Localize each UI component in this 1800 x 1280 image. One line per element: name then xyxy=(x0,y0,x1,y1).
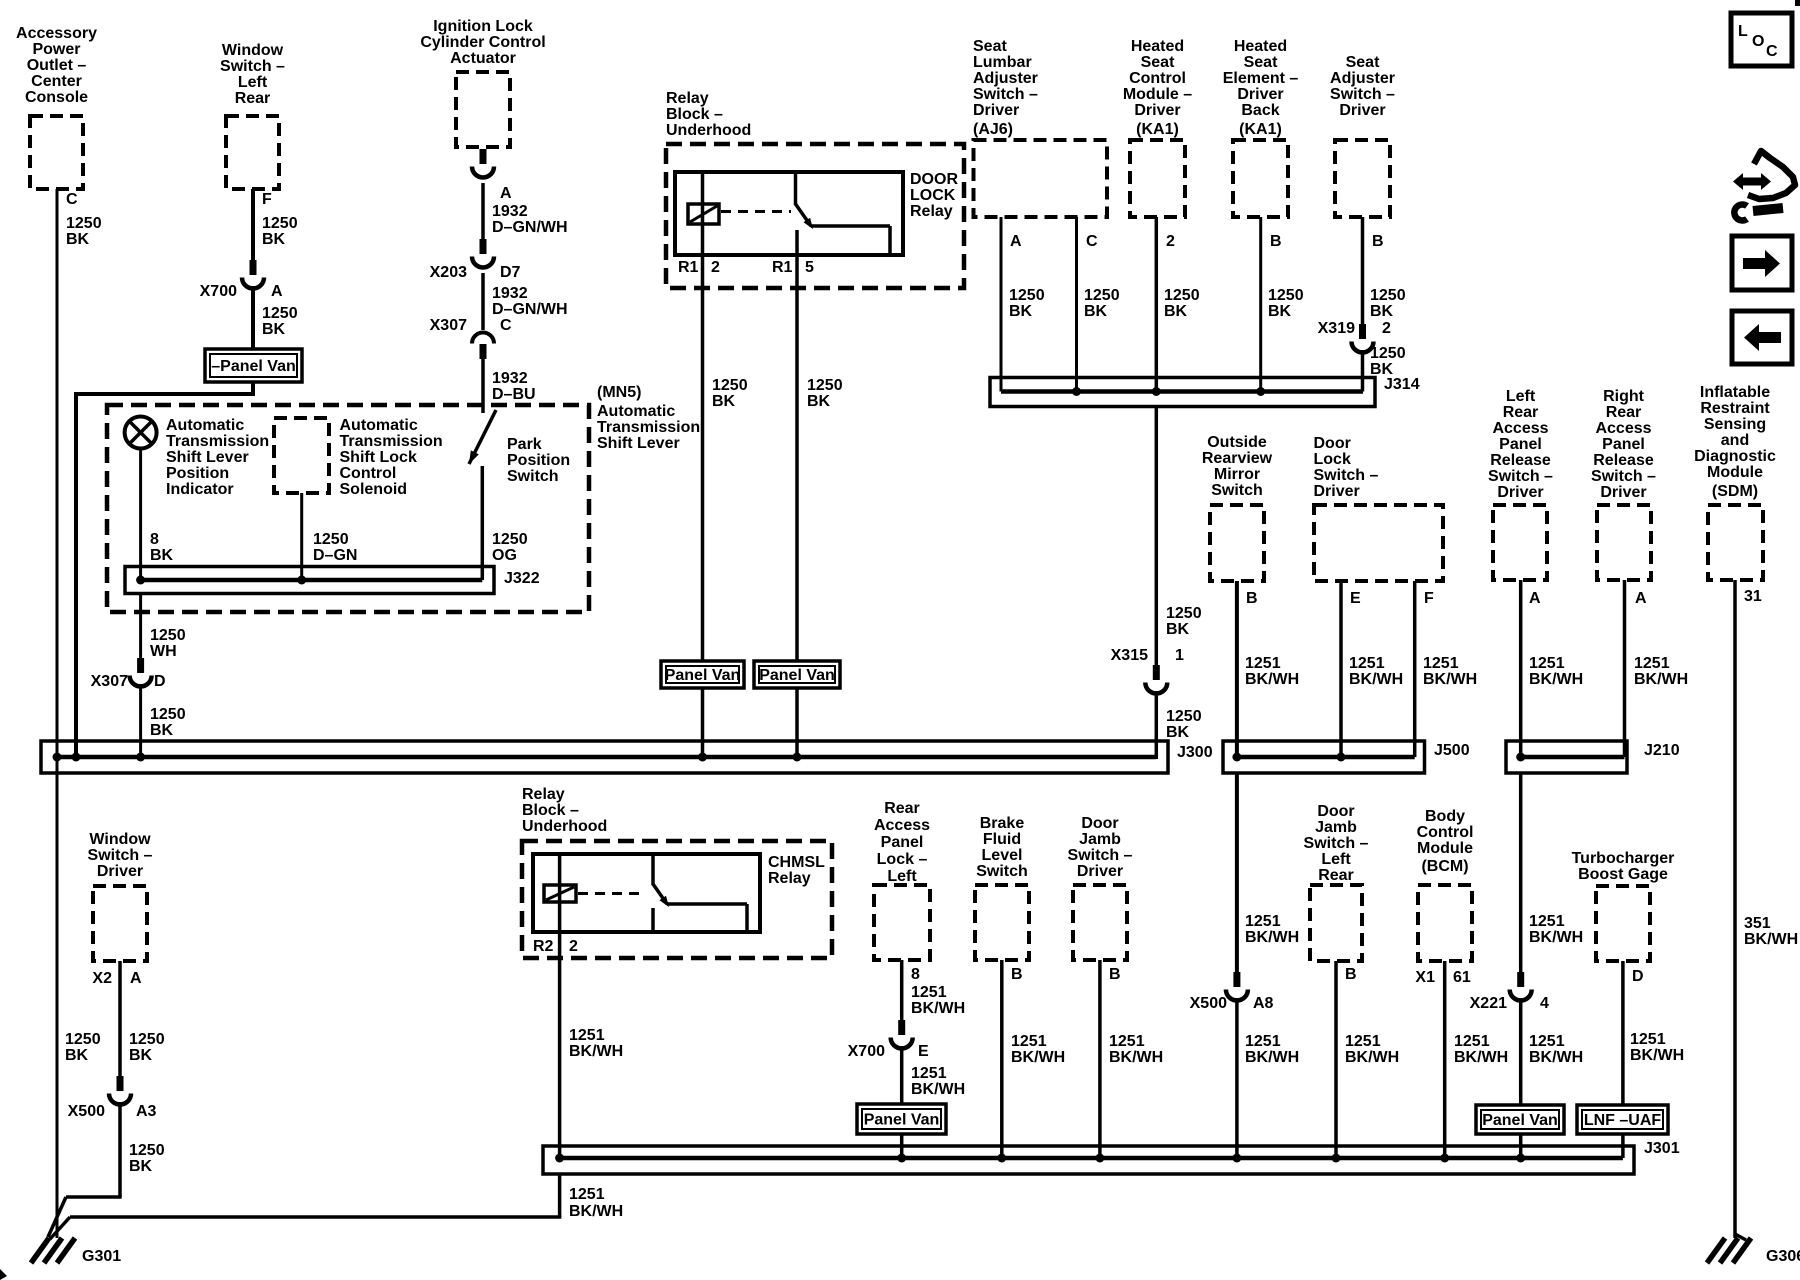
svg-text:BK: BK xyxy=(807,393,831,410)
svg-text:BK/WH: BK/WH xyxy=(1529,929,1583,946)
svg-text:D: D xyxy=(154,673,166,690)
svg-text:Underhood: Underhood xyxy=(522,818,607,835)
svg-text:J210: J210 xyxy=(1644,742,1680,759)
svg-text:BK/WH: BK/WH xyxy=(569,1043,623,1060)
wire: mirror switch below J500, X500 pin A8, 1251 BK/WH to J301 xyxy=(1235,773,1239,972)
svg-text:Panel: Panel xyxy=(1602,436,1645,453)
svg-text:J301: J301 xyxy=(1644,1140,1680,1157)
svg-text:1250: 1250 xyxy=(262,305,298,322)
svg-text:BK: BK xyxy=(66,231,90,248)
svg-text:Module: Module xyxy=(1417,840,1473,857)
svg-text:A: A xyxy=(500,185,512,202)
svg-text:(AJ6): (AJ6) xyxy=(973,121,1013,138)
svg-text:8: 8 xyxy=(150,531,159,548)
svg-text:BK/WH: BK/WH xyxy=(1245,1049,1299,1066)
wire: from -Panel Van down, left and down to J300 xyxy=(251,382,255,394)
svg-text:B: B xyxy=(1011,966,1023,983)
svg-text:Switch –: Switch – xyxy=(220,58,285,75)
svg-text:Panel: Panel xyxy=(1499,436,1542,453)
svg-text:Driver: Driver xyxy=(1314,483,1360,500)
svg-text:J300: J300 xyxy=(1177,744,1213,761)
svg-text:1250: 1250 xyxy=(1166,708,1202,725)
svg-text:BK/WH: BK/WH xyxy=(1529,671,1583,688)
svg-text:1932: 1932 xyxy=(492,285,528,302)
wire: J314 down 1250 BK to X315 xyxy=(1155,407,1159,666)
svg-text:E: E xyxy=(1350,590,1361,607)
svg-text:Jamb: Jamb xyxy=(1315,819,1357,836)
svg-text:Control: Control xyxy=(340,465,397,482)
svg-text:Rear: Rear xyxy=(884,800,920,817)
svg-text:Element –: Element – xyxy=(1223,70,1299,87)
svg-text:Automatic: Automatic xyxy=(166,417,244,434)
svg-text:Driver: Driver xyxy=(1077,863,1123,880)
svg-text:Outside: Outside xyxy=(1207,434,1267,451)
svg-text:Park: Park xyxy=(507,436,542,453)
connector box: Door Jamb Switch - Left Rear xyxy=(1310,885,1362,961)
splice X500 pin A3 xyxy=(117,1076,124,1091)
svg-text:Switch: Switch xyxy=(976,863,1028,880)
svg-text:1250: 1250 xyxy=(1166,605,1202,622)
wire: door jamb driver pin B 1251 BK/WH to J301 xyxy=(1098,960,1102,1158)
svg-text:1251: 1251 xyxy=(1634,655,1670,672)
svg-text:Rear: Rear xyxy=(1606,404,1642,421)
svg-text:BK: BK xyxy=(712,393,736,410)
icon: right arrow box xyxy=(1732,236,1792,290)
splice rail J322 xyxy=(125,567,494,594)
svg-text:BK: BK xyxy=(129,1158,153,1175)
svg-text:BK/WH: BK/WH xyxy=(569,1203,623,1220)
svg-text:X203: X203 xyxy=(430,264,467,281)
connector box: Door Lock Switch - Driver xyxy=(1314,505,1443,581)
svg-text:Jamb: Jamb xyxy=(1079,831,1121,848)
svg-text:Control: Control xyxy=(1129,70,1186,87)
svg-text:1250: 1250 xyxy=(1009,287,1045,304)
switch: Park Position Switch xyxy=(469,410,496,464)
svg-text:J322: J322 xyxy=(504,570,540,587)
svg-text:Outlet –: Outlet – xyxy=(27,57,87,74)
svg-text:Access: Access xyxy=(1492,420,1548,437)
svg-text:Restraint: Restraint xyxy=(1700,400,1770,417)
svg-text:1251: 1251 xyxy=(569,1027,605,1044)
relay: CHMSL Relay body xyxy=(533,854,760,932)
svg-text:OG: OG xyxy=(492,547,517,564)
svg-text:Heated: Heated xyxy=(1131,38,1184,55)
svg-text:C: C xyxy=(66,191,78,208)
option box: -Panel Van xyxy=(205,349,302,382)
svg-text:Switch –: Switch – xyxy=(88,847,153,864)
icon: LOC box xyxy=(1731,13,1792,66)
svg-text:Left: Left xyxy=(1506,388,1536,405)
splice X700 pin E xyxy=(898,1020,905,1035)
svg-text:Relay: Relay xyxy=(768,870,811,887)
wire: relay pin 5, 1250 BK to Panel Van and J300 xyxy=(795,255,799,663)
splice rail J210 xyxy=(1506,741,1627,773)
svg-text:D–BU: D–BU xyxy=(492,386,536,403)
svg-text:5: 5 xyxy=(805,259,814,276)
svg-text:BK/WH: BK/WH xyxy=(1109,1049,1163,1066)
wire: 1932 D-GN/WH to X307 xyxy=(481,273,485,330)
connector box: Brake Fluid Level Switch xyxy=(975,885,1029,960)
svg-text:BK: BK xyxy=(1164,303,1188,320)
svg-text:Driver: Driver xyxy=(1339,102,1385,119)
svg-text:1250: 1250 xyxy=(262,215,298,232)
connector box: Heated Seat Control Module - Driver (KA1) xyxy=(1130,140,1185,217)
svg-text:Console: Console xyxy=(25,89,88,106)
svg-text:Switch –: Switch – xyxy=(1488,468,1553,485)
ground G301 xyxy=(57,1238,75,1263)
svg-text:351: 351 xyxy=(1744,915,1771,932)
svg-text:Boost Gage: Boost Gage xyxy=(1578,866,1668,883)
wire: window switch driver X2 pin A 1250 BK xyxy=(118,961,122,1076)
svg-text:X307: X307 xyxy=(91,673,128,690)
svg-text:D–GN: D–GN xyxy=(313,547,357,564)
svg-text:Panel Van: Panel Van xyxy=(759,667,835,684)
svg-text:Access: Access xyxy=(1595,420,1651,437)
svg-text:Seat: Seat xyxy=(1346,54,1380,71)
svg-text:Left: Left xyxy=(887,868,917,885)
svg-text:Door: Door xyxy=(1314,435,1351,452)
svg-text:A3: A3 xyxy=(136,1103,157,1120)
splice rail J500 xyxy=(1223,741,1425,773)
svg-text:BK/WH: BK/WH xyxy=(1245,671,1299,688)
relay switch blade xyxy=(796,204,812,226)
svg-text:Automatic: Automatic xyxy=(340,417,418,434)
svg-text:1251: 1251 xyxy=(1423,655,1459,672)
svg-text:Driver: Driver xyxy=(97,863,143,880)
svg-text:X500: X500 xyxy=(1190,995,1227,1012)
svg-text:Driver: Driver xyxy=(1497,484,1543,501)
svg-text:Window: Window xyxy=(222,42,284,59)
svg-text:R1: R1 xyxy=(772,259,793,276)
svg-text:1250: 1250 xyxy=(1268,287,1304,304)
svg-text:Right: Right xyxy=(1603,388,1645,405)
wire: door lock switch pin F 1251 BK/WH to J500 xyxy=(1413,581,1417,757)
svg-text:BK: BK xyxy=(1166,621,1190,638)
svg-text:8: 8 xyxy=(911,966,920,983)
svg-text:Back: Back xyxy=(1241,102,1279,119)
svg-text:1250: 1250 xyxy=(1370,287,1406,304)
svg-text:2: 2 xyxy=(1382,320,1391,337)
svg-text:1251: 1251 xyxy=(1345,1033,1381,1050)
wire: lamp pin 8 BK down to J322 xyxy=(139,449,142,581)
svg-text:X700: X700 xyxy=(848,1043,885,1060)
svg-text:Shift Lever: Shift Lever xyxy=(166,449,249,466)
svg-text:Panel: Panel xyxy=(881,834,924,851)
svg-text:X1: X1 xyxy=(1415,969,1435,986)
svg-text:Switch –: Switch – xyxy=(1314,467,1379,484)
svg-text:31: 31 xyxy=(1744,588,1762,605)
svg-text:BK: BK xyxy=(262,321,286,338)
svg-text:BK: BK xyxy=(150,722,174,739)
svg-text:1251: 1251 xyxy=(569,1186,605,1203)
wire: seat adjuster pin B 1250 BK xyxy=(1361,217,1365,324)
svg-text:Switch –: Switch – xyxy=(1068,847,1133,864)
svg-text:Underhood: Underhood xyxy=(666,122,751,139)
svg-text:BK/WH: BK/WH xyxy=(1345,1049,1399,1066)
svg-text:L: L xyxy=(1738,23,1748,40)
svg-text:LOCK: LOCK xyxy=(910,187,956,204)
svg-text:1251: 1251 xyxy=(1529,1033,1565,1050)
svg-text:D7: D7 xyxy=(500,264,521,281)
svg-text:BK: BK xyxy=(65,1047,89,1064)
svg-text:BK/WH: BK/WH xyxy=(1454,1049,1508,1066)
svg-text:D–GN/WH: D–GN/WH xyxy=(492,301,568,318)
splice X315 pin 1 xyxy=(1153,665,1160,680)
relay coil xyxy=(688,204,719,224)
svg-text:1250: 1250 xyxy=(807,377,843,394)
svg-text:Panel Van: Panel Van xyxy=(864,1112,940,1129)
connector box: Window Switch - Left Rear xyxy=(226,116,279,189)
svg-text:1932: 1932 xyxy=(492,203,528,220)
svg-text:Seat: Seat xyxy=(1141,54,1175,71)
svg-text:1: 1 xyxy=(1175,647,1184,664)
wire: pin A circuit 1932 D-GN/WH xyxy=(481,183,485,239)
wire: Window Switch LR pin F, circuit 1250 BK xyxy=(251,189,255,260)
svg-text:G306: G306 xyxy=(1766,1248,1800,1265)
wire: X319 to J314 xyxy=(1361,350,1365,392)
svg-text:1251: 1251 xyxy=(1529,913,1565,930)
wire: right rear access pin A 1251 BK/WH to J210 xyxy=(1623,580,1627,757)
svg-text:B: B xyxy=(1270,233,1282,250)
svg-text:Switch –: Switch – xyxy=(1330,86,1395,103)
svg-text:1251: 1251 xyxy=(911,1065,947,1082)
relay coil feed wire pin 2 xyxy=(701,172,705,255)
svg-text:C: C xyxy=(500,317,512,334)
svg-text:Inflatable: Inflatable xyxy=(1700,384,1770,401)
connector box: Seat Lumbar Adjuster Switch - Driver (AJ6) xyxy=(974,140,1108,217)
svg-text:A: A xyxy=(130,970,142,987)
svg-text:A: A xyxy=(1635,590,1647,607)
svg-text:G301: G301 xyxy=(82,1248,121,1265)
svg-text:4: 4 xyxy=(1540,995,1549,1012)
wire: solenoid 1250 D-GN down to J322 xyxy=(300,493,303,580)
svg-text:and: and xyxy=(1721,432,1749,449)
corner scan marks xyxy=(1795,0,1800,6)
svg-text:2: 2 xyxy=(569,938,578,955)
svg-text:Seat: Seat xyxy=(1244,54,1278,71)
svg-text:Power: Power xyxy=(32,41,80,58)
svg-text:X221: X221 xyxy=(1470,995,1507,1012)
svg-text:Diagnostic: Diagnostic xyxy=(1694,448,1776,465)
svg-text:X700: X700 xyxy=(200,283,237,300)
svg-text:Lock: Lock xyxy=(1314,451,1351,468)
relay block dashed box: Relay Block - Underhood xyxy=(666,144,964,288)
svg-text:1250: 1250 xyxy=(712,377,748,394)
wire: mirror switch pin B 1251 BK/WH to J500 xyxy=(1235,581,1239,759)
option box: Panel Van (rear access panel lock) xyxy=(857,1104,946,1134)
svg-text:Panel Van: Panel Van xyxy=(665,667,741,684)
svg-text:1250: 1250 xyxy=(65,1031,101,1048)
svg-text:Module –: Module – xyxy=(1123,86,1192,103)
svg-text:Panel Van: Panel Van xyxy=(1482,1112,1558,1129)
svg-text:B: B xyxy=(1345,966,1357,983)
svg-text:Switch –: Switch – xyxy=(1304,835,1369,852)
svg-text:Solenoid: Solenoid xyxy=(340,481,408,498)
svg-text:Door: Door xyxy=(1081,815,1118,832)
svg-text:1250: 1250 xyxy=(1164,287,1200,304)
wire: 1250 BK into -Panel Van option xyxy=(251,286,255,351)
svg-text:1251: 1251 xyxy=(1245,655,1281,672)
wire: heated seat element pin B 1250 BK to J314 xyxy=(1259,217,1262,392)
option box: Panel Van (door lock relay) xyxy=(661,661,744,688)
svg-text:A8: A8 xyxy=(1253,995,1274,1012)
wire: 1250 BK down to J300 xyxy=(139,684,142,759)
relay pin 5 wire xyxy=(795,230,799,255)
wire: rear access panel lock pin 8 1251 BK/WH xyxy=(900,960,904,1020)
connector box: Rear Access Panel Lock - Left xyxy=(874,885,930,960)
connector box: Outside Rearview Mirror Switch xyxy=(1210,505,1264,581)
wire: BCM X1 pin 61 1251 BK/WH to J301 xyxy=(1443,961,1447,1158)
svg-text:WH: WH xyxy=(150,643,177,660)
svg-text:R2: R2 xyxy=(533,938,554,955)
svg-text:Seat: Seat xyxy=(973,38,1007,55)
svg-text:1250: 1250 xyxy=(150,627,186,644)
svg-text:BK/WH: BK/WH xyxy=(1349,671,1403,688)
svg-text:B: B xyxy=(1246,590,1258,607)
svg-text:Rear: Rear xyxy=(1503,404,1539,421)
svg-text:1251: 1251 xyxy=(1245,913,1281,930)
svg-text:Shift Lock: Shift Lock xyxy=(340,449,417,466)
svg-text:Module: Module xyxy=(1707,464,1763,481)
svg-text:E: E xyxy=(918,1043,929,1060)
svg-text:Automatic: Automatic xyxy=(597,403,675,420)
svg-text:Window: Window xyxy=(89,831,151,848)
svg-text:Rear: Rear xyxy=(1318,867,1354,884)
svg-text:1250: 1250 xyxy=(129,1142,165,1159)
svg-text:Lumbar: Lumbar xyxy=(973,54,1032,71)
svg-text:BK: BK xyxy=(1009,303,1033,320)
svg-text:1251: 1251 xyxy=(1454,1033,1490,1050)
option box: Panel Van (X221) xyxy=(1476,1105,1564,1134)
splice rail J301 xyxy=(543,1146,1634,1174)
svg-text:D–GN/WH: D–GN/WH xyxy=(492,219,568,236)
CHMSL relay contact line xyxy=(667,902,747,906)
connector box: Inflatable Restraint Sensing and Diagnostic Module (SDM) xyxy=(1708,505,1763,580)
svg-text:BK/WH: BK/WH xyxy=(1634,671,1688,688)
connector box: Body Control Module (BCM) xyxy=(1418,885,1472,961)
splice rail J314 xyxy=(990,378,1375,407)
wire: Accessory Power Outlet pin C, circuit 1250 BK, down to J300 and G301 xyxy=(56,189,59,1238)
connector box: Left Rear Access Panel Release Switch - Driver xyxy=(1493,505,1547,580)
svg-text:D: D xyxy=(1632,968,1644,985)
svg-text:1251: 1251 xyxy=(1630,1031,1666,1048)
svg-text:BK: BK xyxy=(129,1047,153,1064)
option box: Panel Van (door lock relay pin 5) xyxy=(754,661,840,688)
CHMSL relay switch blade xyxy=(653,884,667,904)
wire: 1250 WH below J322 xyxy=(139,594,142,659)
svg-text:A: A xyxy=(1010,233,1022,250)
svg-text:C: C xyxy=(1086,233,1098,250)
svg-text:BK: BK xyxy=(1166,724,1190,741)
wire: relay pin 2, 1250 BK to Panel Van and J300 xyxy=(701,255,705,663)
svg-text:BK: BK xyxy=(150,547,174,564)
svg-text:Accessory: Accessory xyxy=(16,25,97,42)
svg-text:BK/WH: BK/WH xyxy=(1245,929,1299,946)
relay dashed actuation link xyxy=(721,210,791,213)
svg-text:Block –: Block – xyxy=(666,106,723,123)
splice X203 pin D7 xyxy=(480,239,487,254)
svg-text:X319: X319 xyxy=(1318,320,1355,337)
svg-text:Control: Control xyxy=(1417,824,1474,841)
connector box: Accessory Power Outlet - Center Console xyxy=(30,116,83,189)
svg-text:BK/WH: BK/WH xyxy=(911,1081,965,1098)
svg-text:–Panel Van: –Panel Van xyxy=(211,358,296,375)
assembly dashed box: (MN5) Automatic Transmission Shift Lever xyxy=(107,405,589,612)
svg-text:BK: BK xyxy=(1268,303,1292,320)
wire: heated seat control pin 2 1250 BK to J314 xyxy=(1155,217,1159,392)
wire: left rear access below J210, X221 pin 4, 1251 BK/WH xyxy=(1519,773,1523,972)
relay: DOOR LOCK Relay body xyxy=(675,172,903,255)
wire: door lock switch pin E 1251 BK/WH to J500 xyxy=(1339,581,1343,759)
svg-text:Position: Position xyxy=(507,452,570,469)
connector box: Seat Adjuster Switch - Driver xyxy=(1335,140,1390,217)
lamp: Automatic Transmission Shift Lever Position Indicator xyxy=(125,417,157,449)
svg-text:J500: J500 xyxy=(1434,742,1470,759)
splice under actuator xyxy=(480,149,487,164)
svg-text:A: A xyxy=(271,283,283,300)
wire: seat lumbar pin A 1250 BK to J314 xyxy=(1000,217,1003,392)
svg-text:Sensing: Sensing xyxy=(1704,416,1766,433)
svg-text:Relay: Relay xyxy=(910,203,953,220)
svg-text:BK/WH: BK/WH xyxy=(1744,931,1798,948)
svg-text:Position: Position xyxy=(166,465,229,482)
svg-text:1250: 1250 xyxy=(1370,345,1406,362)
svg-text:1251: 1251 xyxy=(1529,655,1565,672)
svg-text:C: C xyxy=(1766,43,1778,60)
svg-text:Fluid: Fluid xyxy=(983,831,1021,848)
splice X319 pin 2 xyxy=(1359,324,1366,339)
connector box: Right Rear Access Panel Release Switch - Driver xyxy=(1597,505,1651,580)
wire: door jamb left rear pin B 1251 BK/WH to J301 xyxy=(1334,961,1338,1158)
svg-text:2: 2 xyxy=(1166,233,1175,250)
svg-text:Switch –: Switch – xyxy=(973,86,1038,103)
wire: 1932 D-BU down into MN5 shift lever assembly xyxy=(481,357,485,413)
CHMSL relay switch common xyxy=(651,854,655,885)
svg-text:1251: 1251 xyxy=(1349,655,1385,672)
svg-text:LNF –UAF: LNF –UAF xyxy=(1584,1112,1662,1129)
wire: J301 left 1251 BK/WH ground run to G301 xyxy=(558,1174,562,1217)
svg-text:2: 2 xyxy=(711,259,720,276)
CHMSL relay coil xyxy=(544,885,576,902)
connector box: Door Jamb Switch - Driver xyxy=(1073,885,1127,960)
svg-text:Ignition Lock: Ignition Lock xyxy=(433,18,533,35)
svg-text:(KA1): (KA1) xyxy=(1239,121,1282,138)
svg-text:Shift Lever: Shift Lever xyxy=(597,435,680,452)
relay switch common pin R1 xyxy=(794,172,798,205)
svg-text:(SDM): (SDM) xyxy=(1712,483,1758,500)
svg-text:1250: 1250 xyxy=(66,215,102,232)
svg-text:Indicator: Indicator xyxy=(166,481,234,498)
svg-text:Left: Left xyxy=(1321,851,1351,868)
wire: SDM pin 31 circuit 351 BK/WH to G306 xyxy=(1733,580,1737,1238)
svg-text:Relay: Relay xyxy=(666,90,709,107)
svg-text:Left: Left xyxy=(238,74,268,91)
svg-text:F: F xyxy=(1424,590,1434,607)
connector box: Ignition Lock Cylinder Control Actuator xyxy=(456,72,510,147)
svg-text:Adjuster: Adjuster xyxy=(1330,70,1395,87)
wire: park switch to J322, 1250 OG xyxy=(481,466,485,580)
icon: left arrow box xyxy=(1732,311,1792,364)
wire: X500 A3 1250 BK to G301 xyxy=(118,1102,122,1197)
svg-text:F: F xyxy=(262,191,272,208)
relay block dashed box: Relay Block - Underhood (CHMSL) xyxy=(522,841,832,958)
option box: LNF -UAF xyxy=(1577,1105,1668,1134)
svg-text:Transmission: Transmission xyxy=(340,433,443,450)
svg-text:CHMSL: CHMSL xyxy=(768,854,825,871)
svg-text:Transmission: Transmission xyxy=(166,433,269,450)
svg-text:Access: Access xyxy=(874,817,930,834)
svg-text:Brake: Brake xyxy=(980,815,1025,832)
